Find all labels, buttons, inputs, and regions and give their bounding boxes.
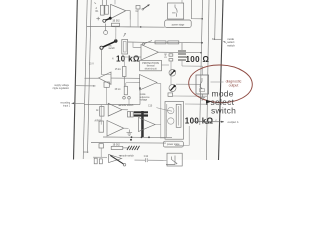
page background [74,0,224,160]
junction dot H2 [115,40,117,42]
switch inside PS3 [172,157,177,164]
svg-text:15 kΩ: 15 kΩ [115,68,121,71]
right supply rail B [206,0,209,160]
svg-text:recording: recording [60,102,70,105]
dark hatched resistor R12 [127,146,140,150]
svg-text:voltage: voltage [140,99,148,102]
svg-text:mode: mode [140,94,146,96]
wire S2 down [100,49,102,74]
transistor curves PS2 [168,107,174,113]
page left edge [74,0,78,160]
svg-text:C10: C10 [148,105,153,107]
wire supply arrow [76,85,96,87]
connector pad J1 [104,31,108,35]
wire U2 input top [101,74,111,76]
wire box2 to rail [185,103,207,105]
transistor Q1 lever [106,18,111,20]
resistor R2 horizontal [112,23,120,26]
resistor R11 [111,146,123,149]
wire top stubs [101,0,103,5]
junction dot H2 railA [201,42,203,44]
wire U4 out down [157,84,161,105]
power stage box PS2 [165,102,184,140]
wire protections to caps [162,64,170,66]
caption rect PS1 [165,20,192,28]
diode box D1 [168,93,173,97]
junction dot rail B output [206,122,208,124]
wire PS2 left [160,137,165,139]
op-amp U3 center [141,45,159,61]
small box on rail [104,82,109,87]
trimmer arrow [124,33,126,36]
resistor R7 [124,86,127,95]
switch S1 lever top [143,5,150,10]
junction dot [130,139,132,141]
dark bar capacitor CA [134,111,148,113]
wire recording arrow [72,102,85,104]
wire dash to label [211,81,224,83]
ground G2 [200,94,206,100]
capacitor bank C3 [169,54,173,56]
op-amp U8 [109,155,122,163]
svg-text:A R62: A R62 [95,120,102,123]
svg-text:¼: ¼ [112,57,114,60]
wire U5 out [122,109,128,111]
resistor R6 [123,67,127,77]
resistor R9 [99,121,104,132]
vertical wire mid [160,104,162,137]
resistor R1 top-left [101,5,105,15]
wire R6 to U3 [124,57,141,67]
switch inside PS1 [174,5,176,8]
svg-text:10 kΩ: 10 kΩ [116,54,140,63]
left supply rail V+ [83,0,87,159]
small boxes pair [128,112,131,118]
wire PS1 right [192,0,203,19]
svg-text:power stage: power stage [167,143,180,146]
svg-text:thermal: thermal [147,65,155,68]
junction dots H6 [131,136,133,138]
svg-text:output: output [229,84,239,88]
wire corner [126,82,140,84]
node plus mark [96,17,100,21]
dark bar capacitor CB [134,114,148,116]
resistor R10 [99,144,104,148]
wire U3 out [159,51,202,54]
wire diag [156,108,172,112]
vertical wire mid2 [166,104,168,138]
svg-text:mode switch: mode switch [121,104,134,107]
transistor Q1 [103,19,106,22]
wire pads down [128,99,130,104]
wire caps to diagnostic box [182,66,202,75]
resistor R3 tall [122,40,128,55]
wire H7 [91,142,166,145]
svg-text:power stage: power stage [172,23,185,26]
wire C12 to vert [164,159,167,161]
page right edge [219,0,224,160]
svg-text:switch: switch [211,106,236,116]
svg-text:D 45: D 45 [166,52,168,58]
wire R10 down [100,148,102,157]
transistor Q1 dot [109,17,112,20]
wire H5 [84,103,140,105]
junction dot U3 rail [200,52,202,54]
wire U3 input L [133,42,141,47]
wire U2 in [111,77,140,79]
wire U1 out to H1 [129,20,131,27]
wire R6 down [123,77,125,87]
op-amp U4 [140,75,158,91]
svg-text:mode switch: mode switch [121,155,134,158]
protections box [140,60,162,70]
switch S4 lever [110,155,124,164]
capacitor C2 [136,6,140,10]
transistor Q2b [169,70,176,77]
wire U2 out [85,77,99,79]
left rail tick [83,151,88,153]
label power stage 2 [163,141,183,147]
svg-text:15 kΩ: 15 kΩ [115,88,121,91]
wire Q2 rail [176,83,201,85]
wire U1 output [126,11,131,20]
trimmer pads [123,97,126,100]
red ellipse [188,64,253,104]
wire D1 rail [173,95,207,97]
dark resistor RV vertical [141,111,144,137]
wire bottom left [93,156,107,158]
power stage box PS3 [167,153,182,166]
wire R7 up [125,83,127,87]
capacitor stack C4 [178,51,186,60]
switch S3 on H2 [143,43,145,45]
wire C4 up [181,43,183,50]
svg-text:100 Ω: 100 Ω [186,55,210,64]
op-amp U2 left [99,72,112,84]
svg-text:C12: C12 [144,156,149,158]
junction dot H1 [140,26,142,28]
svg-text:1B 562: 1B 562 [112,21,120,23]
wire bars to node [181,60,183,66]
right supply rail A [200,0,203,125]
svg-text:switch: switch [109,47,116,50]
svg-text:reference: reference [140,96,150,99]
wire loop right [175,126,189,145]
mark top-left [94,3,96,4]
svg-text:100 kΩ: 100 kΩ [185,116,214,125]
op-amp U6 [107,121,124,137]
wire U6 out [124,127,129,129]
resistor R13 [94,158,97,164]
op-amp U5 [108,103,122,116]
arrow small [223,41,227,43]
resistor inside PS2 [176,104,181,127]
svg-text:15 V: 15 V [89,64,94,66]
wire R9 to H5 [100,105,102,125]
junction dot rail B upper [206,103,208,105]
wire U3 in2 [134,56,141,58]
left supply rail V- [88,0,92,153]
output arrow [193,121,224,123]
resistor R5 [168,41,179,44]
diagnostic switch box [196,75,209,94]
junction dot PS1 rail [201,18,203,20]
capacitor C1 top-left [105,5,109,14]
ground G1 [127,130,133,136]
wire U3 in1 [134,46,141,48]
op-amp U7 [139,118,156,132]
resistor R8 [100,107,104,117]
wire U7 out [155,124,161,126]
svg-text:switch: switch [227,43,235,47]
wire U4 down [139,88,141,104]
wire box to H5 [106,87,108,104]
svg-text:input 1: input 1 [63,105,71,108]
wire C3 to Q2 [170,61,172,85]
wire H6 [103,136,172,139]
svg-text:supply voltage: supply voltage [54,84,69,87]
resistor R4 [155,41,166,44]
op-amp U1 [111,4,126,18]
power stage box PS1 [168,3,184,19]
wire H1 main bus [87,26,165,29]
node dot U4 [139,87,141,89]
svg-text:ripple regulation: ripple regulation [53,87,70,90]
svg-text:output 1: output 1 [228,120,239,124]
short line 34 [214,38,223,40]
transistor Q2 [169,85,176,92]
svg-text:short-circuit: short-circuit [145,67,157,70]
wire to pad [104,24,106,31]
wire U1 feedback [111,11,126,19]
wire R11 right [123,147,129,149]
resistor R14 [99,159,102,164]
wire H2 bus [128,41,203,44]
wire S2 up [115,27,117,42]
right supply rail C [214,0,217,40]
switch S2 main lever [100,46,103,49]
wire L bottom right [166,156,175,165]
arrow to select [206,100,211,104]
